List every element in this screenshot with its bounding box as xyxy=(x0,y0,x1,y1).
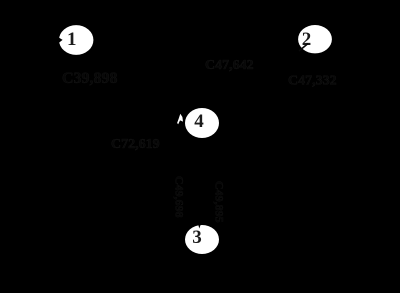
svg-text:4: 4 xyxy=(194,111,204,132)
node 4 ellipse xyxy=(185,108,219,138)
wire edge 4-2 xyxy=(202,39,315,123)
wire notch on node 3 top edge xyxy=(198,224,201,229)
arrowhead into node 4 (open/white) xyxy=(177,114,183,124)
wire edge 1-3 xyxy=(76,40,202,239)
wire notch on node 1 left edge xyxy=(58,37,62,43)
svg-text:C49,895: C49,895 xyxy=(213,181,227,223)
wire edge 1-4 xyxy=(76,40,202,123)
svg-text:C39,898: C39,898 xyxy=(62,70,118,87)
wire edge 4-3 left xyxy=(195,138,197,225)
svg-text:C72,619: C72,619 xyxy=(111,137,160,152)
wire edge 2-3 xyxy=(202,39,315,239)
svg-text:1: 1 xyxy=(67,29,77,50)
node 3 ellipse xyxy=(185,225,219,254)
svg-text:C47,332: C47,332 xyxy=(288,74,337,89)
svg-text:C49,698: C49,698 xyxy=(173,176,187,218)
node 1 ellipse xyxy=(59,25,93,55)
node 2 ellipse xyxy=(298,25,332,53)
wire edge 3-4 right xyxy=(207,138,209,225)
svg-text:3: 3 xyxy=(192,227,202,248)
wire fragment over node 2 xyxy=(299,44,308,52)
svg-text:C47,642: C47,642 xyxy=(205,58,254,73)
